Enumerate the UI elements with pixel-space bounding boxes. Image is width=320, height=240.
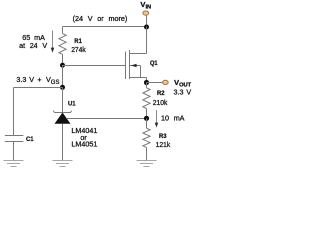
svg-text:121k: 121k: [156, 142, 171, 149]
capacitor C1: [5, 136, 24, 142]
svg-text:at24V: at24V: [19, 41, 47, 50]
wire U1 top lead: [62, 88, 64, 113]
wire Q1 drain to VIN: [146, 27, 148, 54]
svg-text:3.3V: 3.3V: [174, 88, 192, 97]
junction dot feedback node: [144, 116, 149, 121]
wire U1 bottom lead: [62, 124, 64, 160]
junction dot VIN rail: [144, 25, 149, 30]
resistor R1 274k: [59, 27, 66, 66]
transistor Q1 MOSFET: [126, 50, 147, 79]
svg-text:10mA: 10mA: [161, 114, 185, 123]
svg-text:R2: R2: [157, 90, 165, 97]
svg-text:Q1: Q1: [150, 60, 158, 67]
resistor R2 210k: [143, 83, 150, 119]
svg-text:U1: U1: [68, 100, 76, 107]
wire gate node down: [62, 65, 64, 88]
svg-text:(24Vormore): (24Vormore): [73, 14, 128, 23]
node VOUT terminal: [163, 80, 169, 84]
wire U1 feedback: [66, 118, 146, 120]
wire VGS rail to C1: [14, 87, 63, 89]
label 65 mA at 24 V: [19, 33, 47, 50]
wire C1 top lead: [13, 88, 15, 136]
wire to VOUT terminal: [147, 82, 163, 84]
wire Q1 source down: [146, 78, 148, 83]
current arrow 65 mA: [51, 31, 55, 53]
ground C1: [4, 161, 24, 167]
svg-text:274k: 274k: [71, 47, 86, 54]
wire C1 bottom lead: [13, 142, 15, 161]
label LM4041 or LM4051: [71, 126, 97, 149]
ground R3: [137, 161, 157, 167]
shunt reference U1 LM4041: [53, 111, 71, 124]
svg-text:R3: R3: [159, 133, 167, 140]
junction dot VGS rail: [60, 85, 65, 90]
wire gate: [63, 65, 126, 67]
junction dot VOUT node: [144, 80, 149, 85]
svg-text:C1: C1: [26, 136, 34, 143]
ground U1: [53, 161, 73, 167]
wire top rail 24V: [63, 26, 147, 28]
svg-text:R1: R1: [74, 38, 82, 45]
resistor R3 121k: [143, 119, 150, 161]
svg-text:LM4051: LM4051: [71, 140, 97, 149]
node VIN terminal: [143, 11, 149, 27]
svg-text:210k: 210k: [153, 100, 168, 107]
junction dot gate node: [60, 63, 65, 68]
current arrow 10 mA: [155, 110, 159, 128]
